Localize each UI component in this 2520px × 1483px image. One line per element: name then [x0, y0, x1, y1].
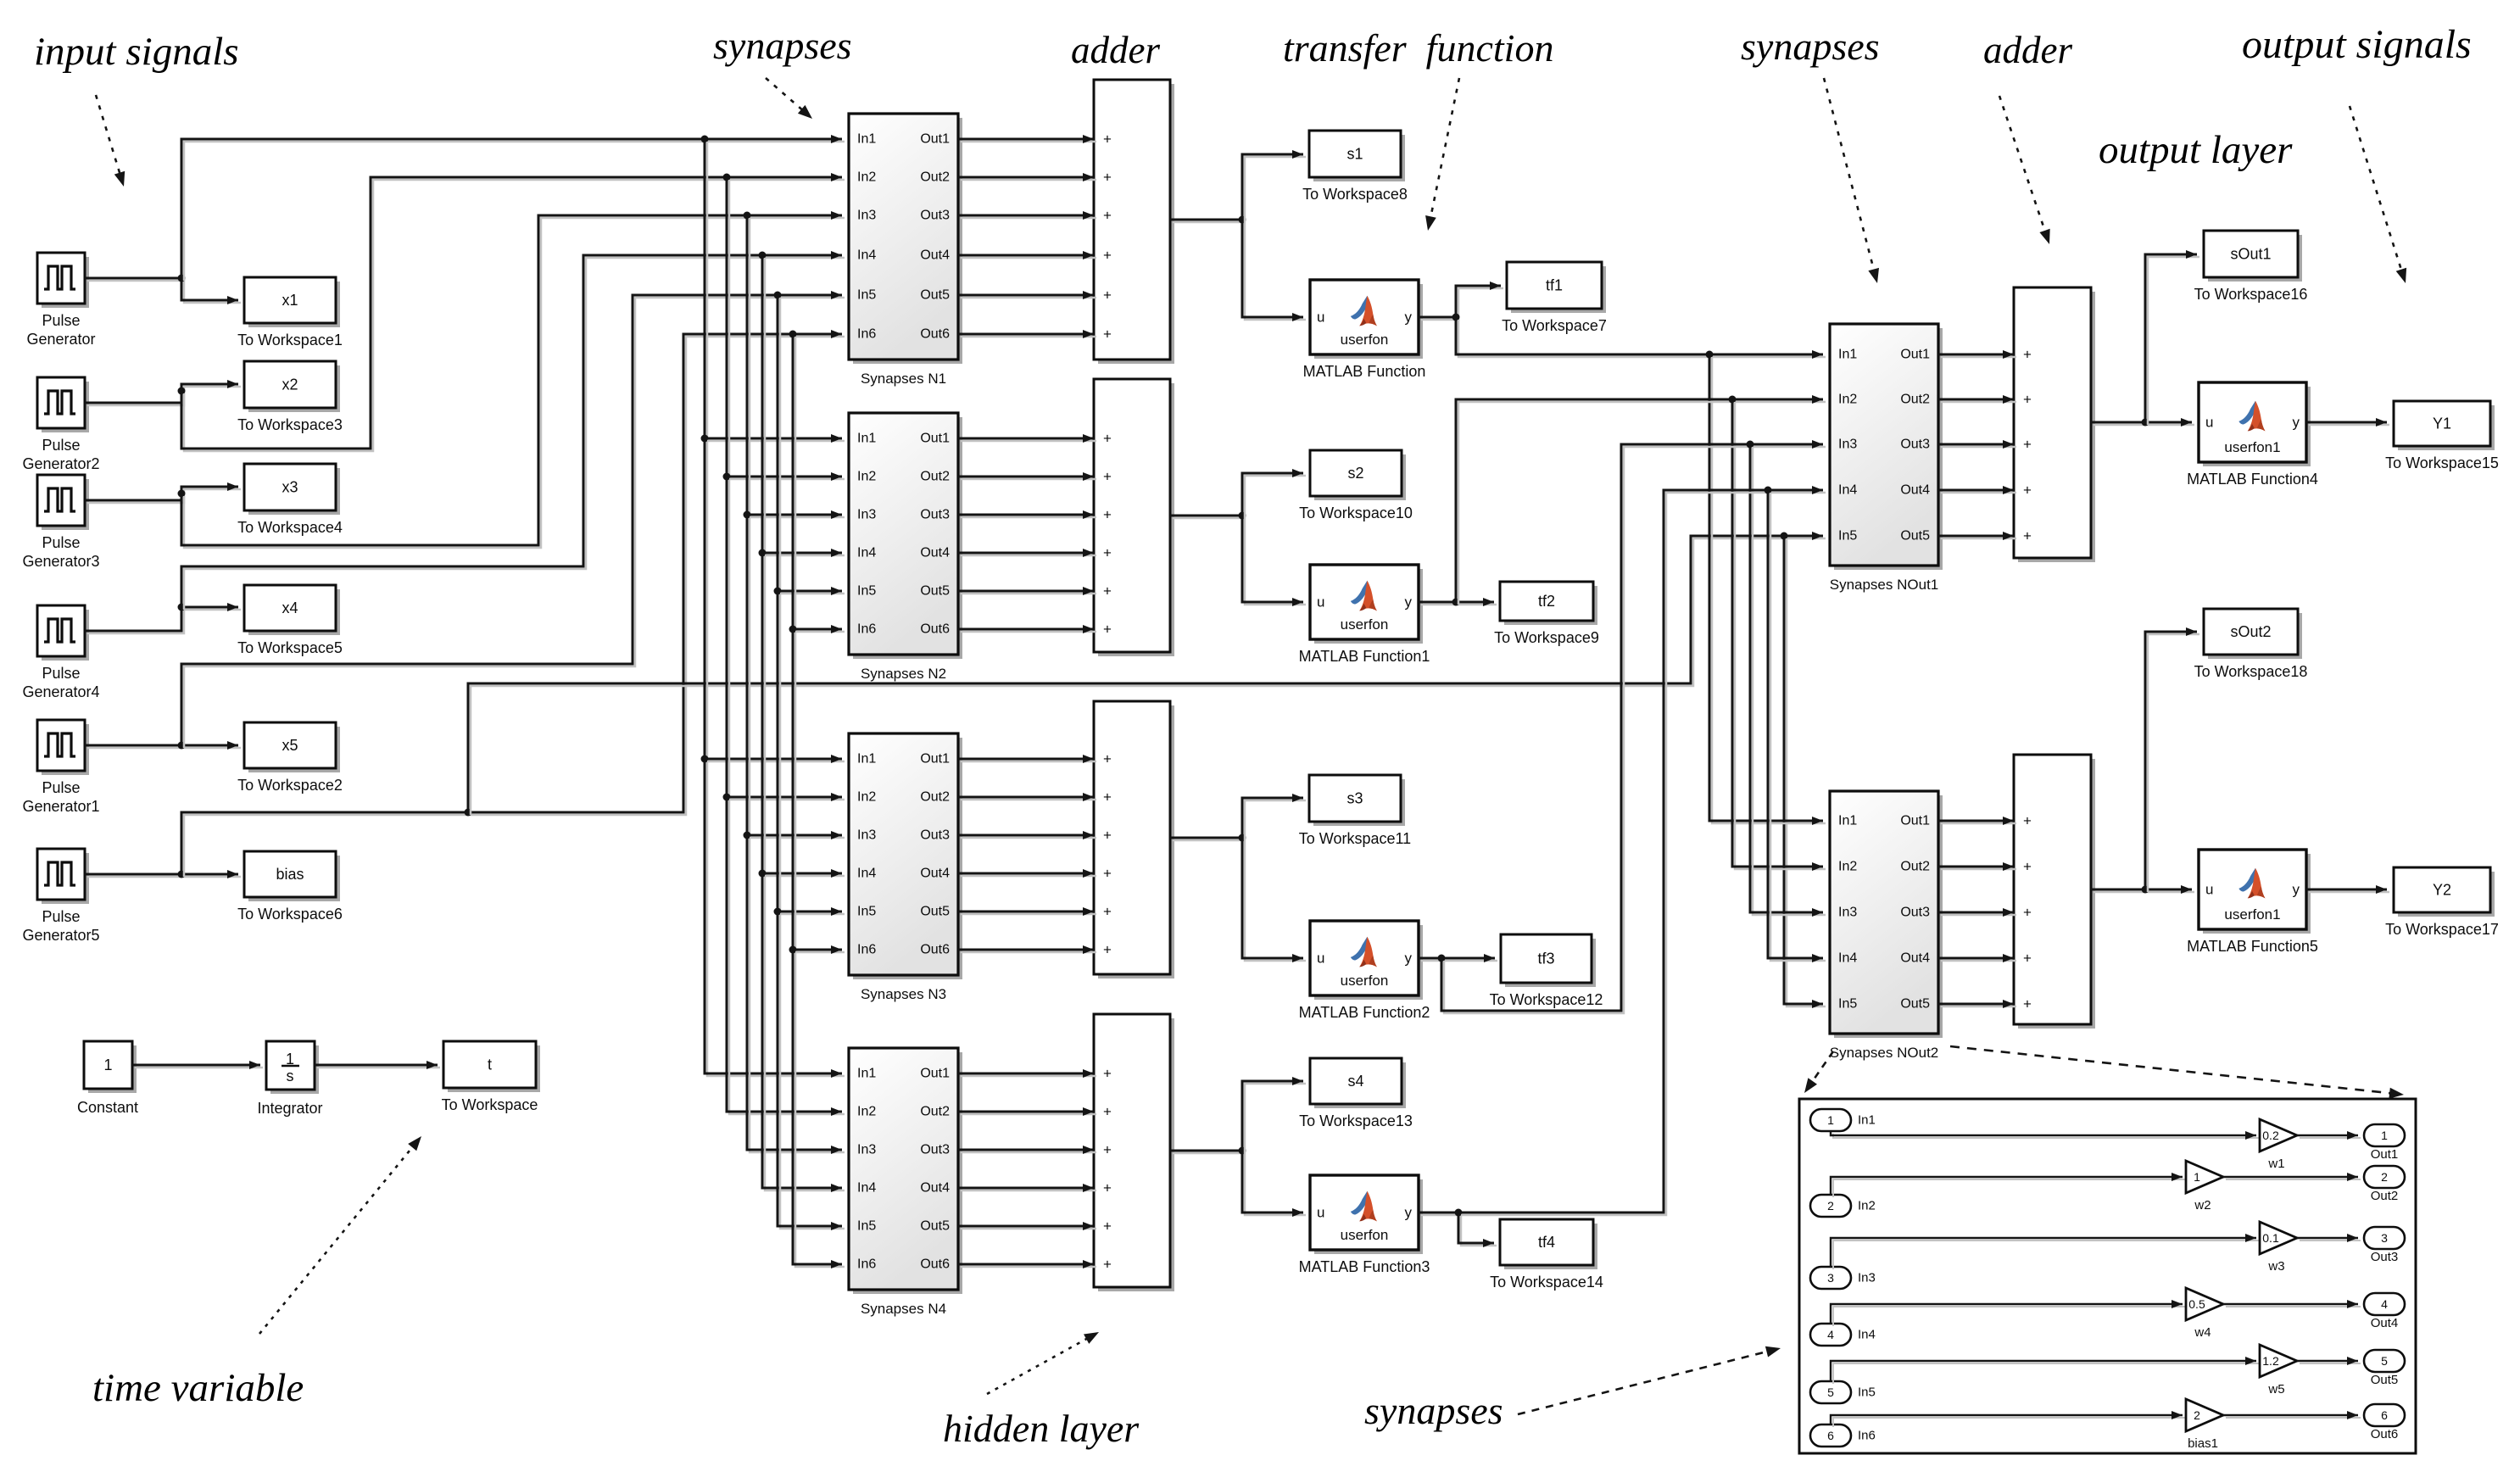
wire output adder 2 to MATLAB Function5 with junction to sOut2 [2091, 885, 2194, 894]
wire Synapses N4 Out3 to adder 4 [958, 1146, 1096, 1154]
svg-text:In1: In1 [857, 1067, 876, 1081]
svg-text:x2: x2 [282, 376, 298, 393]
svg-text:u: u [1317, 594, 1324, 610]
svg-text:+: + [1103, 1142, 1112, 1158]
to-workspace block x4 (To Workspace5) [237, 585, 343, 656]
svg-text:To Workspace3: To Workspace3 [237, 416, 343, 433]
svg-text:w4: w4 [2194, 1325, 2211, 1340]
wire tf3 signal riser to NOut1 In3 [1441, 440, 1826, 1013]
svg-text:4: 4 [2381, 1297, 2388, 1311]
to-workspace block x2 (To Workspace3) [237, 361, 343, 433]
inset wire gain w2 to Out2 [2223, 1173, 2361, 1181]
svg-text:w2: w2 [2194, 1198, 2211, 1213]
svg-text:u: u [2205, 882, 2213, 898]
svg-text:y: y [2293, 882, 2300, 898]
svg-text:Out5: Out5 [1900, 529, 1930, 544]
dashed arrow from "adder" to output adder [1999, 96, 2050, 244]
svg-text:To Workspace1: To Workspace1 [237, 332, 343, 348]
svg-text:+: + [1103, 287, 1112, 304]
wire x5: Pulse Generator1 to To Workspace2 with junction [85, 741, 241, 750]
svg-text:Pulse: Pulse [42, 779, 80, 796]
to-workspace block tf4 (To Workspace14) [1490, 1219, 1603, 1291]
svg-text:In5: In5 [857, 905, 876, 919]
to-workspace block tf2 (To Workspace9) [1494, 582, 1599, 646]
svg-text:Out5: Out5 [1900, 997, 1930, 1012]
svg-text:Synapses N3: Synapses N3 [861, 986, 946, 1002]
adder (sum) block for neuron 3 [1094, 701, 1174, 978]
svg-text:In1: In1 [857, 752, 876, 767]
svg-text:+: + [1103, 170, 1112, 186]
MATLAB Function1 block (transfer function 2) [1299, 565, 1430, 665]
svg-text:+: + [1103, 866, 1112, 882]
svg-text:Out5: Out5 [920, 1219, 950, 1234]
annotation "adder" (hidden layer) [1071, 29, 1160, 71]
svg-text:+: + [1103, 208, 1112, 224]
wire x4: Pulse Generator4 to To Workspace5 with junction [85, 603, 241, 633]
inset wire In1 to gain [1831, 1131, 2259, 1140]
inset input port In5 [1810, 1381, 1876, 1403]
svg-text:+: + [1103, 583, 1112, 599]
svg-text:In4: In4 [1838, 483, 1857, 498]
svg-text:To Workspace15: To Workspace15 [2385, 454, 2499, 471]
wire Synapses N1 Out6 to adder 1 [958, 330, 1096, 338]
wire adder 2 output with junction [1170, 512, 1246, 520]
svg-text:+: + [1103, 469, 1112, 485]
svg-text:+: + [2023, 813, 2032, 829]
wire Synapses N3 Out2 to adder 3 [958, 793, 1096, 801]
dashed arrow from "time variable" to To Workspace [259, 1136, 421, 1334]
inset input port In3 [1810, 1267, 1876, 1289]
svg-text:To Workspace2: To Workspace2 [237, 777, 343, 794]
svg-text:In3: In3 [1838, 438, 1857, 452]
svg-text:u: u [2205, 415, 2213, 431]
svg-text:To Workspace13: To Workspace13 [1299, 1112, 1413, 1129]
pulse generator "Pulse Generator1" [22, 720, 99, 815]
wire Synapses N1 Out5 to adder 1 [958, 291, 1096, 299]
svg-text:MATLAB Function: MATLAB Function [1303, 363, 1426, 380]
to-workspace block t (To Workspace) [442, 1041, 540, 1113]
wire Synapses N2 Out3 to adder 2 [958, 510, 1096, 519]
svg-text:Out4: Out4 [920, 867, 950, 881]
svg-text:Out5: Out5 [920, 905, 950, 919]
svg-text:To Workspace: To Workspace [442, 1096, 538, 1113]
to-workspace block s3 (To Workspace11) [1299, 775, 1411, 847]
svg-text:hidden layer: hidden layer [943, 1407, 1140, 1450]
to-workspace block x3 (To Workspace4) [237, 464, 343, 536]
svg-text:Out2: Out2 [920, 470, 950, 484]
wire Integrator to To Workspace [315, 1061, 440, 1069]
svg-text:In2: In2 [1838, 393, 1857, 407]
pulse generator "Pulse Generator5" [22, 849, 99, 944]
svg-text:Integrator: Integrator [257, 1100, 322, 1117]
svg-text:synapses: synapses [713, 24, 852, 67]
svg-text:s2: s2 [1347, 465, 1363, 482]
inset wire gain w4 to Out4 [2223, 1300, 2361, 1308]
to-workspace block s4 (To Workspace13) [1299, 1058, 1413, 1129]
svg-text:Out5: Out5 [2371, 1373, 2399, 1387]
wire bias riser and N1 In6 feed line [181, 330, 845, 877]
svg-text:Out6: Out6 [920, 1257, 950, 1272]
wire tf2 drop to Synapses NOut2 In2 [1732, 399, 1826, 871]
svg-text:output signals: output signals [2242, 22, 2472, 67]
svg-text:In2: In2 [1858, 1199, 1876, 1213]
svg-text:In3: In3 [857, 209, 876, 223]
svg-text:Pulse: Pulse [42, 312, 80, 329]
annotation "input signals" [34, 30, 239, 74]
svg-text:To Workspace9: To Workspace9 [1494, 629, 1599, 646]
inset wire gain bias1 to Out6 [2223, 1411, 2361, 1419]
svg-text:Pulse: Pulse [42, 437, 80, 454]
wire tf2 signal riser to NOut1 In2 [1456, 395, 1826, 605]
dashed arrow from "hidden layer" to adder 4 [987, 1332, 1099, 1394]
svg-text:In6: In6 [857, 1257, 876, 1272]
subsystem block Synapses N4 [849, 1048, 962, 1317]
svg-text:2: 2 [1827, 1199, 1834, 1213]
wire tf1 signal to NOut1 In1 [1456, 317, 1826, 359]
svg-text:1.2: 1.2 [2262, 1354, 2279, 1368]
to-workspace block s2 (To Workspace10) [1299, 450, 1413, 521]
wire trunk of input 6 down to Synapses N2/N3/N4 In6 [789, 334, 845, 1268]
svg-text:userfon: userfon [1341, 1227, 1389, 1243]
wire Synapses NOut2 Out2 to output adder 2 [1938, 862, 2016, 871]
svg-text:To Workspace5: To Workspace5 [237, 639, 343, 656]
MATLAB Function4 block (output transfer function 1) [2187, 382, 2318, 488]
svg-text:In4: In4 [857, 867, 876, 881]
svg-text:Out3: Out3 [920, 828, 950, 843]
svg-text:1: 1 [2194, 1170, 2200, 1184]
wire MATLAB Function2 y to tf3 [1419, 954, 1497, 962]
svg-text:Synapses N2: Synapses N2 [861, 666, 946, 682]
inset input port In2 [1810, 1195, 1876, 1217]
wire trunk of input 1 down to Synapses N2/N3/N4 In1 [701, 139, 845, 1078]
svg-text:MATLAB Function4: MATLAB Function4 [2187, 471, 2318, 488]
svg-text:In4: In4 [857, 1181, 876, 1196]
inset input port In6 [1810, 1424, 1876, 1447]
annotation "output layer" [2099, 128, 2293, 172]
to-workspace block Y2 (To Workspace17) [2385, 867, 2499, 938]
svg-text:bias1: bias1 [2188, 1436, 2218, 1451]
svg-text:t: t [488, 1056, 492, 1073]
wire adder 3 output with junction [1170, 834, 1246, 842]
svg-text:Out1: Out1 [1900, 348, 1930, 362]
annotation "synapses" (weights inset) [1364, 1389, 1503, 1432]
inset wire In4 to gain [1831, 1300, 2185, 1326]
weights inset box (synapses subsystem contents) [1799, 1099, 2416, 1453]
svg-text:To Workspace6: To Workspace6 [237, 906, 343, 923]
wire branch into Synapses N2 In5 [778, 587, 845, 595]
svg-text:u: u [1317, 1205, 1324, 1221]
wire branch into Synapses N2 In3 [747, 510, 845, 519]
dashed expansion line to inset top-right corner [1950, 1046, 2404, 1099]
svg-text:In1: In1 [1838, 814, 1857, 828]
svg-text:1: 1 [2381, 1129, 2388, 1142]
constant block (value 1) [77, 1041, 138, 1116]
wire x4 riser and N1 In4 feed line [181, 251, 845, 610]
annotation "adder" (output layer) [1983, 29, 2072, 71]
subsystem block Synapses N2 [849, 413, 962, 682]
inset gain block w2 (value 1) [2186, 1161, 2223, 1213]
svg-text:In6: In6 [857, 622, 876, 637]
svg-text:3: 3 [1827, 1271, 1834, 1285]
svg-text:y: y [2293, 415, 2300, 431]
dashed arrow from "synapses" to Synapses N1 [766, 78, 812, 119]
svg-text:+: + [2023, 482, 2032, 499]
svg-text:u: u [1317, 951, 1324, 967]
svg-text:In6: In6 [857, 943, 876, 957]
inset input port In1 [1810, 1109, 1876, 1131]
wire branch up to sOut1 [2145, 250, 2199, 425]
svg-text:s: s [287, 1068, 294, 1084]
wire branch into Synapses N2 In2 [727, 472, 845, 481]
inset wire gain w5 to Out5 [2297, 1357, 2361, 1365]
wire Synapses N2 Out2 to adder 2 [958, 472, 1096, 481]
wire branch into Synapses N3 In5 [778, 907, 845, 916]
svg-text:+: + [2023, 859, 2032, 875]
svg-text:5: 5 [2381, 1354, 2388, 1368]
svg-text:+: + [1103, 1066, 1112, 1082]
svg-text:In3: In3 [857, 828, 876, 843]
svg-text:y: y [1405, 594, 1413, 610]
wire Synapses N1 Out4 to adder 1 [958, 251, 1096, 259]
svg-text:In2: In2 [857, 170, 876, 185]
svg-text:w5: w5 [2267, 1382, 2284, 1397]
to-workspace block sOut2 (To Workspace18) [2194, 609, 2308, 680]
MATLAB Function5 block (output transfer function 2) [2187, 850, 2318, 955]
dashed arrow from "output signals" to To Workspace15 [2350, 106, 2406, 283]
svg-text:MATLAB Function5: MATLAB Function5 [2187, 938, 2318, 955]
inset gain block w5 (value 1.2) [2260, 1345, 2297, 1397]
svg-text:Synapses NOut1: Synapses NOut1 [1830, 577, 1939, 593]
svg-text:s1: s1 [1346, 146, 1363, 163]
svg-text:In2: In2 [1838, 860, 1857, 874]
svg-text:To Workspace7: To Workspace7 [1502, 317, 1607, 334]
svg-text:Out4: Out4 [1900, 483, 1930, 498]
annotation "transfer function" [1283, 26, 1553, 70]
inset gain block w3 (value 0.1) [2260, 1222, 2297, 1274]
dashed arrow from "synapses" to weights inset [1518, 1346, 1781, 1414]
wire x3: Pulse Generator3 to To Workspace4 with junction [85, 482, 241, 503]
dashed arrow from "synapses" to Synapses NOut1 [1824, 78, 1879, 283]
svg-text:Generator1: Generator1 [22, 798, 99, 815]
svg-text:Out2: Out2 [920, 1105, 950, 1119]
svg-text:userfon1: userfon1 [2224, 439, 2280, 455]
svg-text:+: + [2023, 528, 2032, 544]
svg-text:+: + [1103, 131, 1112, 148]
MATLAB Function block (transfer function 1) [1303, 280, 1426, 380]
svg-text:Y1: Y1 [2433, 415, 2451, 432]
svg-text:output layer: output layer [2099, 128, 2293, 172]
wire branch into Synapses N3 In6 [793, 945, 845, 954]
svg-text:bias: bias [276, 866, 304, 883]
svg-text:x3: x3 [282, 479, 298, 496]
wire Synapses N3 Out5 to adder 3 [958, 907, 1096, 916]
wire x5 riser and N1 In5 feed line [181, 291, 845, 748]
wire tf4 signal riser to NOut1 In4 [1458, 486, 1826, 1215]
svg-text:To Workspace8: To Workspace8 [1302, 186, 1408, 203]
inset output port Out6 [2364, 1404, 2405, 1441]
wire Synapses NOut2 Out3 to output adder 2 [1938, 908, 2016, 917]
svg-text:Generator5: Generator5 [22, 927, 99, 944]
svg-text:Out3: Out3 [1900, 906, 1930, 920]
svg-text:+: + [1103, 431, 1112, 447]
pulse generator "Pulse Generator3" [22, 475, 99, 570]
svg-text:In5: In5 [1858, 1385, 1876, 1400]
svg-text:+: + [2023, 996, 2032, 1012]
svg-text:+: + [2023, 951, 2032, 967]
svg-text:1: 1 [103, 1056, 112, 1073]
svg-text:synapses: synapses [1364, 1389, 1503, 1432]
wire adder 1 output with junction [1170, 216, 1246, 224]
svg-text:In4: In4 [857, 546, 876, 560]
svg-text:x5: x5 [282, 737, 298, 754]
wire Synapses N4 Out5 to adder 4 [958, 1222, 1096, 1230]
wire Synapses N4 Out4 to adder 4 [958, 1184, 1096, 1192]
svg-text:Out4: Out4 [1900, 951, 1930, 966]
inset output port Out5 [2364, 1350, 2405, 1387]
wire x2 riser and N1 In2 feed line [181, 173, 845, 451]
wire tf1 drop to Synapses NOut2 In1 [1709, 354, 1826, 825]
wire branch into Synapses N2 In1 [705, 434, 845, 443]
wire MATLAB Function3 y to tf4 [1419, 1209, 1497, 1248]
wire output adder 1 to MATLAB Function4 with junction to sOut1 [2091, 418, 2194, 427]
svg-text:To Workspace18: To Workspace18 [2194, 663, 2308, 680]
svg-text:In5: In5 [857, 288, 876, 303]
pulse generator "Pulse Generator" [26, 253, 95, 348]
svg-text:In5: In5 [857, 584, 876, 599]
wire branch to MATLAB Function block 3 [1242, 838, 1306, 962]
inset input port In4 [1810, 1324, 1876, 1346]
svg-text:To Workspace10: To Workspace10 [1299, 505, 1413, 521]
svg-text:+: + [1103, 1257, 1112, 1273]
dashed arrow from "input signals" to pulse generators [96, 95, 125, 187]
svg-text:Out6: Out6 [920, 943, 950, 957]
svg-text:0.5: 0.5 [2188, 1297, 2205, 1311]
svg-text:Synapses N4: Synapses N4 [861, 1301, 946, 1317]
wire Synapses N2 Out5 to adder 2 [958, 587, 1096, 595]
svg-text:In4: In4 [1838, 951, 1857, 966]
svg-text:Out3: Out3 [920, 1143, 950, 1157]
wire Synapses N3 Out3 to adder 3 [958, 831, 1096, 839]
wire tf3 drop to Synapses NOut2 In3 [1750, 444, 1826, 917]
wire x3 riser and N1 In3 feed line [181, 211, 845, 548]
svg-text:Out6: Out6 [920, 327, 950, 342]
annotation "synapses" (hidden layer) [713, 24, 852, 67]
svg-text:In5: In5 [1838, 997, 1857, 1012]
wire Synapses N2 Out6 to adder 2 [958, 625, 1096, 633]
svg-text:s4: s4 [1347, 1073, 1363, 1090]
wire branch to MATLAB Function block 1 [1242, 220, 1306, 321]
wire bias: Pulse Generator5 to To Workspace6 with junction [85, 870, 241, 878]
wire MATLAB Function4 y to Y1 [2306, 418, 2389, 427]
annotation "hidden layer" [943, 1407, 1140, 1450]
wire Synapses N4 Out6 to adder 4 [958, 1260, 1096, 1268]
adder (sum) block for output neuron 2 [2014, 755, 2095, 1029]
svg-text:userfon1: userfon1 [2224, 906, 2280, 923]
svg-text:Pulse: Pulse [42, 665, 80, 682]
wire branch up to sOut2 [2145, 627, 2199, 892]
annotation "time variable" [92, 1366, 304, 1410]
adder (sum) block for neuron 2 [1094, 379, 1174, 656]
svg-text:Y2: Y2 [2433, 882, 2451, 899]
svg-text:Synapses N1: Synapses N1 [861, 371, 946, 387]
svg-text:5: 5 [1827, 1385, 1834, 1399]
wire Synapses N2 Out4 to adder 2 [958, 549, 1096, 557]
svg-text:In3: In3 [857, 1143, 876, 1157]
svg-text:To Workspace11: To Workspace11 [1299, 830, 1411, 847]
svg-text:+: + [1103, 904, 1112, 920]
wire Synapses N4 Out1 to adder 4 [958, 1069, 1096, 1078]
svg-text:Out5: Out5 [920, 288, 950, 303]
subsystem block Synapses N1 [849, 114, 962, 387]
svg-text:Out2: Out2 [920, 790, 950, 805]
inset wire gain w1 to Out1 [2297, 1131, 2361, 1140]
svg-text:tf1: tf1 [1546, 277, 1563, 294]
svg-text:Out1: Out1 [2371, 1147, 2399, 1162]
svg-text:To Workspace14: To Workspace14 [1490, 1274, 1603, 1291]
svg-text:+: + [2023, 437, 2032, 453]
wire branch into Synapses N3 In2 [727, 793, 845, 801]
svg-text:4: 4 [1827, 1328, 1834, 1341]
wire Synapses NOut1 Out3 to output adder 1 [1938, 440, 2016, 449]
svg-text:In5: In5 [857, 1219, 876, 1234]
svg-text:tf4: tf4 [1538, 1234, 1555, 1251]
svg-text:input signals: input signals [34, 30, 239, 74]
svg-text:+: + [1103, 1180, 1112, 1196]
wire branch into Synapses N3 In4 [762, 869, 845, 878]
svg-text:y: y [1405, 309, 1413, 326]
svg-text:In3: In3 [1838, 906, 1857, 920]
svg-text:synapses: synapses [1741, 25, 1880, 68]
svg-text:u: u [1317, 309, 1324, 326]
svg-text:MATLAB Function2: MATLAB Function2 [1299, 1004, 1430, 1021]
svg-text:To Workspace4: To Workspace4 [237, 519, 343, 536]
inset wire In6 to gain [1831, 1411, 2185, 1427]
svg-text:+: + [1103, 622, 1112, 638]
wire branch into Synapses N3 In3 [747, 831, 845, 839]
svg-text:+: + [1103, 789, 1112, 806]
inset gain block w1 (value 0.2) [2260, 1119, 2297, 1171]
to-workspace block bias (To Workspace6) [237, 851, 343, 923]
svg-text:In2: In2 [857, 1105, 876, 1119]
svg-text:1: 1 [1827, 1113, 1834, 1127]
wire MATLAB Function1 y to tf2 [1419, 598, 1497, 606]
svg-text:y: y [1405, 951, 1413, 967]
svg-text:In4: In4 [1858, 1328, 1876, 1342]
svg-text:Out1: Out1 [1900, 814, 1930, 828]
svg-text:Out1: Out1 [920, 752, 950, 767]
integrator block (1/s) [257, 1041, 322, 1117]
svg-text:Pulse: Pulse [42, 534, 80, 551]
wire Synapses N1 Out2 to adder 1 [958, 173, 1096, 181]
inset gain block w4 (value 0.5) [2186, 1288, 2223, 1340]
wire Synapses N3 Out6 to adder 3 [958, 945, 1096, 954]
svg-text:Out2: Out2 [2371, 1189, 2399, 1203]
svg-text:To Workspace12: To Workspace12 [1490, 991, 1603, 1008]
subsystem block Synapses N3 [849, 733, 962, 1002]
svg-text:In1: In1 [1838, 348, 1857, 362]
wire Synapses N3 Out1 to adder 3 [958, 755, 1096, 763]
svg-text:Out3: Out3 [1900, 438, 1930, 452]
adder (sum) block for neuron 4 [1094, 1014, 1174, 1291]
svg-text:tf2: tf2 [1538, 593, 1555, 610]
svg-text:In6: In6 [857, 327, 876, 342]
svg-text:Out2: Out2 [1900, 393, 1930, 407]
wire Synapses N1 Out1 to adder 1 [958, 135, 1096, 143]
svg-text:Out4: Out4 [2371, 1316, 2399, 1330]
svg-text:userfon: userfon [1341, 332, 1389, 348]
svg-text:Out1: Out1 [920, 432, 950, 446]
to-workspace block x1 (To Workspace1) [237, 277, 343, 348]
